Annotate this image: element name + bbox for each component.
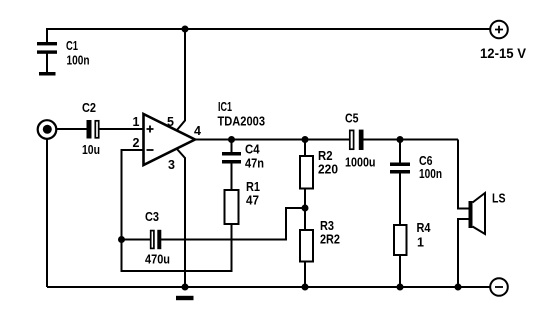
svg-text:47: 47 — [246, 194, 259, 208]
svg-text:4: 4 — [194, 124, 201, 138]
svg-text:LS: LS — [492, 192, 506, 206]
svg-text:12-15 V: 12-15 V — [480, 46, 526, 61]
wire bottom rail — [47, 286, 490, 288]
wire LS branch down to speaker — [458, 140, 469, 209]
capacitor C2 10u electrolytic — [82, 101, 100, 157]
resistor R3 2R2 — [300, 219, 340, 262]
input connector — [38, 120, 57, 139]
ground symbol — [176, 296, 194, 300]
wire C5 to LS branch — [364, 139, 459, 141]
svg-text:10u: 10u — [82, 143, 100, 157]
svg-text:C5: C5 — [345, 112, 359, 126]
junction node top rail — [182, 26, 189, 33]
svg-text:C6: C6 — [419, 154, 433, 168]
svg-text:R1: R1 — [246, 180, 260, 194]
junction node ground rail — [182, 284, 189, 291]
op-amp IC1 TDA2003 — [144, 100, 266, 165]
resistor R1 47 — [225, 180, 261, 224]
capacitor C6 100n — [390, 154, 442, 181]
wire C4 top lead — [231, 140, 233, 153]
svg-text:100n: 100n — [419, 167, 442, 181]
plus supply terminal — [480, 21, 526, 61]
wire C2 to pin 1 — [100, 128, 144, 130]
wire R2 top lead — [304, 140, 306, 157]
junction node C4 output — [228, 136, 235, 143]
minus supply terminal — [490, 278, 508, 296]
junction node LS bottom — [455, 284, 462, 291]
wire C1 bottom lead — [46, 54, 48, 73]
junction node R2 output — [302, 136, 309, 143]
wire C6 to R4 — [399, 174, 401, 226]
junction node X R2/R3 — [302, 205, 309, 212]
resistor R2 220 — [300, 149, 338, 189]
wire R4 bottom lead — [399, 255, 401, 287]
resistor R4 1 — [394, 221, 431, 255]
svg-text:C3: C3 — [145, 210, 159, 224]
wire R2 bottom to node X — [304, 189, 306, 230]
wire R1 bottom lead — [231, 224, 233, 271]
svg-text:5: 5 — [167, 115, 174, 129]
wire pin5 to top rail — [177, 29, 185, 130]
wire input jack to C2 — [51, 128, 87, 130]
wire C4 to R1 — [231, 164, 233, 191]
svg-text:R3: R3 — [320, 219, 334, 233]
capacitor C4 47n — [222, 143, 264, 171]
svg-text:3: 3 — [168, 158, 175, 172]
junction node pin2/C3 — [118, 236, 125, 243]
wire C6 top lead — [399, 140, 401, 163]
capacitor C1 100n — [37, 39, 90, 68]
speaker LS — [469, 192, 506, 235]
svg-text:1: 1 — [417, 236, 424, 250]
wire top supply rail — [47, 28, 490, 30]
svg-text:C2: C2 — [82, 101, 96, 115]
wire speaker bottom to rail — [458, 219, 469, 287]
svg-text:220: 220 — [318, 163, 338, 177]
svg-text:2: 2 — [133, 136, 140, 150]
svg-text:1: 1 — [133, 115, 140, 129]
wire input jack down — [46, 139, 48, 288]
wire C1 top lead — [46, 28, 48, 42]
junction node C6 branch — [397, 136, 404, 143]
svg-text:C1: C1 — [66, 39, 78, 53]
svg-text:TDA2003: TDA2003 — [218, 115, 266, 129]
capacitor C3 470u electrolytic — [145, 210, 170, 267]
junction node R4 bottom — [397, 284, 404, 291]
wire C3 to pin2 node — [122, 239, 151, 241]
wire pin 2 feedback loop — [122, 150, 232, 271]
wire pin3 to ground — [177, 149, 185, 287]
svg-text:100n: 100n — [67, 54, 90, 68]
svg-text:470u: 470u — [145, 253, 170, 267]
svg-text:IC1: IC1 — [218, 100, 232, 114]
svg-text:2R2: 2R2 — [320, 233, 340, 247]
junction node R3 bottom — [302, 284, 309, 291]
svg-text:1000u: 1000u — [345, 156, 376, 170]
svg-text:R2: R2 — [318, 149, 333, 163]
ground bar below C1 — [39, 72, 56, 76]
svg-text:R4: R4 — [417, 221, 431, 235]
wire node X to C3 — [161, 208, 305, 240]
wire R3 bottom lead — [304, 262, 306, 288]
capacitor C5 1000u electrolytic — [345, 112, 376, 170]
svg-text:47n: 47n — [245, 157, 264, 171]
wire output pin4 to C5 — [195, 139, 349, 141]
svg-text:C4: C4 — [245, 143, 260, 157]
